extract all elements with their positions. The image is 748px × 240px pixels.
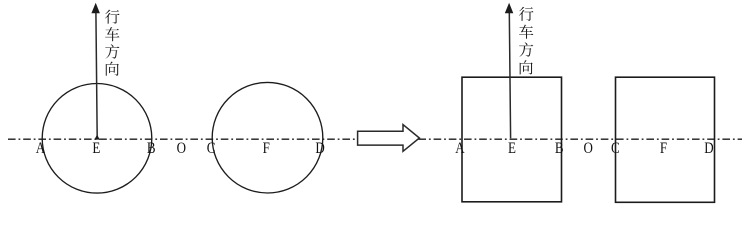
svg-text:B: B (147, 140, 156, 157)
svg-text:O: O (177, 140, 186, 157)
caption char 车 (right) (519, 25, 533, 39)
square wheel 2 (right diagram, C-D, center F) (616, 77, 715, 202)
svg-text:A: A (36, 140, 46, 157)
wheel circle 2 (left, through C-D, center F) (212, 82, 323, 193)
caption char 方 (left) (105, 44, 119, 58)
caption char 行 (left) (105, 10, 120, 24)
svg-text:D: D (704, 140, 713, 157)
svg-text:E: E (92, 140, 100, 157)
svg-text:C: C (207, 140, 216, 157)
caption char 向 (right) (520, 60, 533, 74)
direction arrow (left diagram, from E upward) (91, 3, 100, 140)
svg-text:A: A (455, 140, 465, 157)
caption char 方 (right) (519, 42, 533, 56)
direction arrow (right diagram, from E upward) (505, 3, 514, 138)
caption char 行 (right) (519, 7, 534, 21)
svg-text:D: D (315, 140, 324, 157)
svg-text:E: E (508, 140, 516, 157)
wheel circle 1 (left, through A-B, center E) (42, 84, 152, 194)
caption char 向 (left) (106, 62, 119, 76)
svg-text:F: F (263, 140, 270, 157)
hollow right transform arrow (358, 125, 420, 152)
caption char 车 (left) (105, 27, 119, 41)
center line (dash-dot axle line through A E B O C F D) (8, 138, 742, 140)
svg-text:F: F (660, 140, 667, 157)
square wheel 1 (right diagram, A-B, center E) (462, 77, 562, 202)
svg-text:O: O (584, 140, 593, 157)
svg-text:C: C (611, 140, 620, 157)
svg-text:B: B (555, 140, 564, 157)
